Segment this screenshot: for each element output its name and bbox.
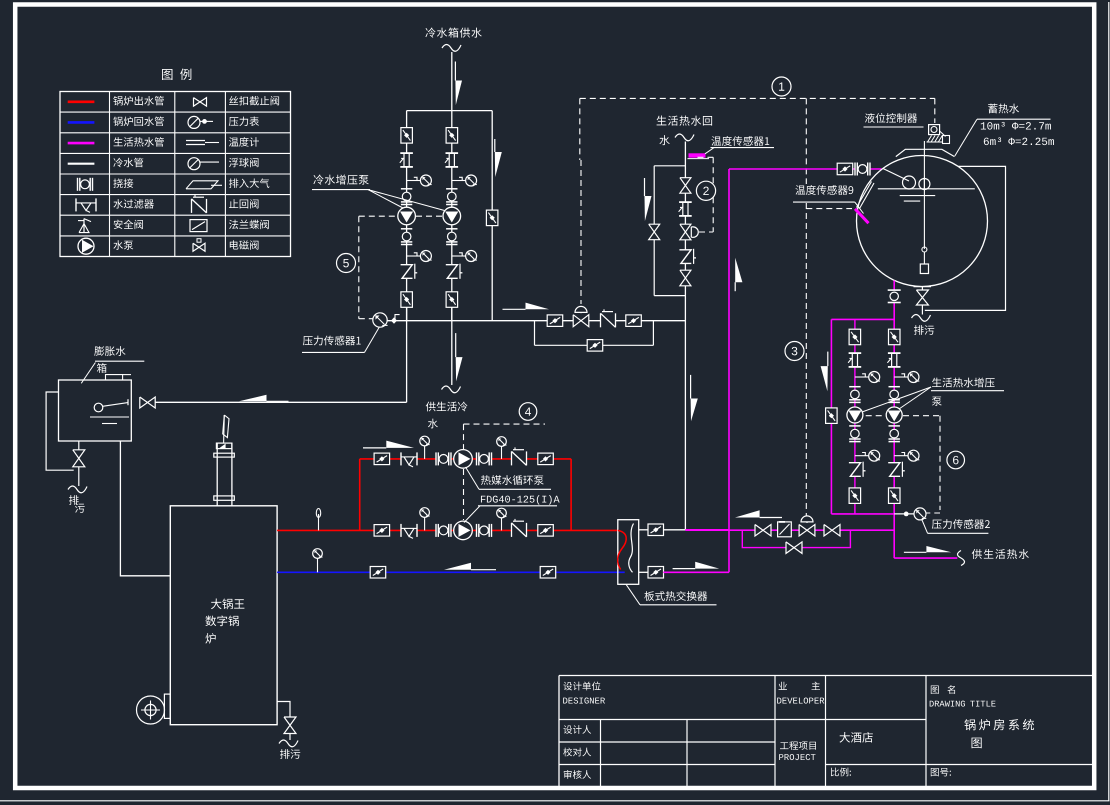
label 排污 blowdown (boiler) — [280, 749, 300, 759]
level controller on tank — [929, 125, 940, 135]
globe valve on return pipe — [680, 178, 691, 194]
flexible joint left branch 6 — [849, 353, 862, 367]
label tank volume 6m3 — [984, 137, 1054, 145]
flanged valve lower red branch left — [374, 525, 390, 537]
flow arrow up on riser — [734, 282, 736, 291]
union branch 1 — [401, 188, 412, 190]
wire header to branch 1 — [406, 111, 408, 129]
pressure gauge branch 2 — [452, 180, 466, 182]
legend row6 water strainer symbol 水过滤器 — [75, 198, 77, 211]
union below pump branch 1 — [401, 228, 412, 230]
circulating pump upper — [454, 450, 473, 469]
tank inlet line (magenta) — [729, 168, 882, 170]
check valve branch 1 — [401, 265, 413, 279]
globe valve on return bypass — [649, 224, 660, 240]
red coil inside heat exchanger — [618, 530, 627, 569]
red drop joining main outlet line — [570, 459, 572, 531]
junction diamond at sensor tap — [391, 317, 397, 323]
flow arrow down on suction drop — [827, 352, 829, 367]
leader from label to pump branch1 — [368, 190, 403, 208]
pump group 6 top manifold (magenta) — [831, 318, 894, 320]
bypass stub right — [652, 321, 654, 346]
globe valve on hot water bypass — [786, 542, 802, 554]
label 供生活热水 supply domestic hot water — [972, 549, 1029, 559]
thermometer gauge upper red branch left — [424, 445, 426, 459]
hot water storage tank 蓄热水罐 — [857, 156, 988, 287]
group number 4 — [519, 403, 537, 421]
wire pump group 5 header — [407, 110, 493, 112]
boiler return pipe (blue) — [277, 571, 625, 573]
motorized control valve on hot water main — [799, 525, 815, 537]
pump group 5 branch1 tail to makeup line — [406, 307, 408, 402]
flexible joint upper red branch left — [436, 452, 451, 465]
label 图号: drawing number — [931, 768, 951, 776]
level switch ball — [903, 176, 916, 189]
label 冷水箱供水 cold water tank supply — [425, 28, 481, 38]
main cold water line — [387, 320, 685, 322]
leader to expansion tank — [81, 363, 95, 384]
label 大酒店 project name — [839, 732, 872, 743]
legend row3 domestic hot water pipe (magenta) 生活热水管 — [68, 142, 95, 145]
makeup water line from cold branch to expansion tank — [155, 401, 406, 403]
legend row6 check valve symbol 止回阀 — [192, 199, 207, 213]
flanged valve branch 1 — [401, 128, 413, 144]
leader to pressure sensor 1 — [365, 327, 380, 353]
legend row5 vent to atmosphere symbol 排入大气 — [186, 181, 218, 189]
dashed control line 1 horizontal — [580, 97, 935, 99]
pump group 5 branch 2 pipe — [451, 129, 453, 321]
label 供生活冷水 supply domestic cold water — [426, 402, 468, 412]
dashed control box 4 — [464, 423, 546, 425]
flow arrow left on makeup line — [267, 400, 289, 402]
cold water booster pump branch 2 — [443, 207, 461, 225]
leader to right pump 6 — [899, 387, 931, 409]
makeup water valve 丝扣截止阀 — [140, 397, 155, 408]
group number 5 — [337, 254, 356, 273]
tank outlet drop to pump group 6 (magenta) — [893, 281, 895, 559]
tank drain valve — [916, 290, 928, 305]
legend row2 pressure gauge symbol 压力表 — [188, 116, 200, 128]
label 排污 blowdown (expansion tank) — [69, 495, 79, 505]
label 比例: scale — [831, 768, 851, 777]
flanged valve right of control valve — [626, 315, 642, 327]
flow arrow right on main cold line — [503, 308, 526, 310]
pressure gauge branch 1 — [407, 180, 421, 182]
pressure sensor 1 gauge — [373, 313, 387, 327]
motorized control valve on cold line — [573, 315, 589, 327]
flow arrow right on HX bottom line — [673, 568, 696, 570]
flexible joint branch 1 — [400, 153, 413, 167]
temperature sensor 9 probe body — [857, 182, 872, 208]
label 业主 DEVELOPER — [779, 682, 787, 690]
strainer lower red branch — [401, 524, 417, 537]
tank inlet dip tube — [883, 169, 909, 182]
legend row4 float ball valve symbol 浮球阀 — [188, 158, 200, 170]
drain valve under expansion tank — [73, 450, 85, 467]
label 压力传感器2 pressure sensor 2 — [932, 519, 990, 529]
check valve on return pipe — [679, 250, 691, 264]
hot water booster pump right — [886, 407, 902, 423]
label 温度传感器9 temperature sensor 9 — [795, 185, 853, 195]
wire header to branch 2 — [451, 111, 453, 129]
union below pump branch 2 — [446, 228, 457, 230]
check valve branch 2 — [446, 265, 458, 279]
HX bottom port magenta to riser — [663, 571, 729, 573]
float ball valve in expansion tank — [94, 403, 103, 412]
pump group 6 outer suction drop (magenta) — [830, 319, 832, 514]
HX bottom port line white — [639, 571, 649, 573]
dashed control box 5 — [359, 215, 398, 217]
HX top port line white — [639, 529, 649, 531]
circulating pump lower — [454, 521, 473, 540]
white coil inside heat exchanger — [629, 524, 634, 573]
union right branch 6 — [889, 386, 900, 388]
label 校对人 — [563, 748, 591, 757]
legend row1 threaded stop valve symbol 丝扣截止阀 — [194, 98, 207, 107]
check valve left branch 6 — [849, 463, 861, 477]
check valve lower red branch — [512, 523, 527, 537]
boiler body 大锅王数字锅炉 — [170, 506, 277, 725]
label 膨胀水箱 — [94, 346, 125, 356]
label 板式热交换器 — [644, 591, 707, 601]
legend row4 cold water pipe (white) 冷水管 — [68, 163, 95, 165]
water level lines in expansion tank — [90, 416, 129, 418]
label 大锅王 数字锅炉 — [211, 599, 244, 610]
union below pump left branch 6 — [849, 425, 860, 427]
gate valve on hot water main — [778, 522, 792, 537]
dashed drop to hot line control valve — [805, 98, 807, 184]
check valve upper red branch — [512, 451, 527, 465]
flexible joint upper red branch right — [477, 452, 492, 465]
leader to upper circulating pump — [466, 467, 480, 489]
union below pump right branch 6 — [889, 425, 900, 427]
legend row7 safety valve symbol 安全阀 — [83, 219, 85, 233]
dashed drop to level controller — [934, 98, 936, 123]
flanged valve left of control valve — [547, 315, 563, 327]
domestic hot water riser (magenta) — [728, 169, 730, 572]
control loop number 3 — [785, 342, 804, 361]
flow arrow down on return bypass — [644, 178, 646, 196]
legend row1 boiler outlet pipe (red) 锅炉出水管 — [68, 101, 95, 104]
bypass stub left — [534, 321, 536, 346]
pressure gauge left branch 6 — [855, 376, 869, 378]
leader to lower circulating pump — [464, 506, 480, 523]
leader to pressure sensor 2 — [922, 520, 928, 533]
pipe break domestic cold outlet — [442, 386, 461, 393]
hot water booster pump left — [847, 407, 863, 423]
pipe from expansion tank to boiler — [120, 441, 170, 576]
tank vent loop to drain — [925, 166, 1006, 310]
flexible joint on tank inlet — [855, 163, 870, 176]
flexible joint right branch 6 — [888, 353, 901, 367]
check valve right branch 6 — [888, 463, 900, 477]
temperature sensor 9 probe tip (magenta) — [855, 209, 869, 223]
union branch 2 — [446, 188, 457, 190]
hot water main from HX to riser (magenta) — [685, 529, 894, 531]
pipe break expansion tank drain — [68, 486, 87, 493]
level controller terminal box — [943, 136, 950, 144]
leader to heat exchanger — [626, 584, 640, 605]
legend row5 flexible joint symbol 挠接 — [78, 178, 93, 191]
temperature sensor 1 probe (magenta) — [689, 154, 705, 157]
legend title 图例 — [162, 69, 191, 81]
flow arrow left on boiler return — [471, 569, 496, 571]
upper circulating pump branch (red) — [360, 458, 571, 460]
tank water level lines — [878, 188, 975, 190]
leader to temperature sensor 9 probe — [855, 202, 864, 213]
legend row8 solenoid valve symbol 电磁阀 — [193, 243, 205, 251]
thermometer on boiler outlet — [318, 514, 320, 530]
flanged valve HX bottom port — [648, 567, 664, 579]
wire cold water supply drop — [451, 52, 453, 111]
globe valve lower on return pipe — [680, 270, 691, 286]
legend table grid — [60, 92, 291, 257]
flanged valve on bypass — [587, 340, 603, 352]
label 设计单位 DESIGNER — [563, 682, 600, 691]
control loop number 1 — [772, 77, 791, 96]
legend row8 water pump symbol 水泵 — [78, 238, 94, 254]
tank top neck — [896, 149, 955, 156]
check valve on cold line — [601, 313, 616, 327]
label 生活热水回水 domestic hot water return — [657, 116, 713, 126]
flanged valve branch 2 — [446, 128, 458, 144]
group number 2 — [696, 181, 715, 200]
level controller hatching — [928, 136, 932, 143]
label 生活热水增压泵 domestic hot water booster pumps — [932, 378, 995, 388]
boiler chimney — [216, 443, 218, 506]
domestic hot water outlet (magenta) — [894, 557, 957, 559]
dashed control box 2 — [698, 156, 714, 158]
expansion tank drain pipe — [78, 441, 80, 486]
leader to left pump 6 — [862, 387, 931, 412]
boiler outlet pipe (red) — [277, 529, 618, 531]
dashed control branch to temperature sensor 9 — [806, 208, 852, 210]
flanged valve bottom branch 1 — [401, 292, 413, 308]
pressure gauge below pump branch 2 — [452, 255, 466, 257]
label 排污 blowdown (tank) — [914, 325, 934, 335]
boiler drain stub — [277, 702, 290, 718]
solenoid valve on return pipe — [680, 224, 691, 240]
flow arrow left on hot water main — [760, 517, 782, 519]
label 热媒水循环泵 circulating pumps — [481, 475, 544, 485]
flow arrow down to domestic cold outlet — [455, 333, 457, 357]
flanged valve on tank inlet — [837, 163, 853, 175]
pressure gauge lower right branch 6 — [894, 455, 908, 457]
expansion tank 膨胀水箱 — [59, 380, 132, 441]
flow arrow down on return pipe lower — [690, 375, 692, 399]
bypass line under control valve — [535, 344, 654, 346]
return bypass left drop — [653, 166, 655, 296]
group number 6 — [947, 451, 965, 469]
label 温度传感器1 temperature sensor 1 — [711, 136, 769, 146]
flanged valve HX top port — [648, 524, 664, 536]
tank drain stub — [914, 286, 932, 288]
label 冷水增压泵 cold water booster pumps — [313, 175, 368, 185]
red riser to pump branch — [359, 459, 361, 531]
leader from label to pump branch2 — [368, 190, 445, 211]
cold water booster pump branch 1 — [398, 207, 416, 225]
boiler drain valve — [284, 717, 296, 734]
label FDG40-125(I)A pump model — [481, 495, 560, 505]
pressure gauge right branch 6 — [894, 376, 908, 378]
label 压力传感器1 pressure sensor 1 — [303, 336, 361, 346]
union left branch 6 — [849, 386, 860, 388]
label tank volume 10m3 — [981, 122, 1051, 130]
dashed control box 6 — [866, 415, 886, 417]
title block grid — [559, 675, 1094, 677]
expansion tank top inlet notch — [106, 375, 123, 380]
flexible joint on return pipe — [679, 202, 692, 216]
flanged valve upper red branch left — [374, 453, 390, 465]
pressure gauge lower left branch 6 — [855, 455, 869, 457]
pressure gauge below pump branch 1 — [407, 255, 421, 257]
drawing title 锅炉房系统图 — [964, 719, 1034, 730]
flanged valve on suction drop — [826, 408, 838, 424]
thermometer gauge lower red branch right — [501, 517, 503, 531]
flanged valve right branch 6 — [889, 329, 901, 345]
pipe break boiler drain — [279, 740, 298, 747]
label 审核人 — [564, 770, 591, 779]
pipe break at return entry — [675, 134, 694, 141]
flexible joint lower red branch right — [477, 524, 492, 537]
expansion tank overflow left loop — [46, 392, 74, 470]
label 工程项目 PROJECT — [780, 741, 816, 750]
chimney damper flag — [223, 415, 226, 443]
level gauge stem in tank — [923, 141, 925, 249]
legend row7 flanged butterfly valve symbol 法兰蝶阀 — [190, 220, 207, 232]
hot water main bypass — [742, 530, 850, 547]
pressure gauge on boiler return — [317, 558, 319, 572]
leader from tank label — [955, 119, 977, 156]
flanged valve upper red branch right — [538, 453, 554, 465]
globe valve 1 on hot water main — [755, 525, 771, 537]
pump group 5 branch2 tail to break — [451, 307, 453, 385]
legend row3 thermometer symbol 温度计 — [186, 140, 205, 142]
level float — [919, 179, 930, 190]
strainer upper red branch — [401, 452, 417, 465]
legend row2 boiler return pipe (blue) 锅炉回水管 — [68, 121, 95, 124]
pipe break tank drain — [912, 315, 931, 322]
label 设计人 — [563, 725, 591, 734]
globe valve 2 on hot water main — [824, 525, 840, 537]
sheet outer thin border right edge — [1108, 2, 1110, 801]
flow arrow down on supply drop — [454, 62, 456, 81]
boiler burner fan — [137, 696, 165, 724]
flanged valve bottom left branch 6 — [849, 488, 861, 504]
plate heat exchanger 板式热交换器 — [618, 520, 639, 585]
flow arrow down on right bypass — [494, 139, 496, 152]
pump group 6 left branch (magenta) — [854, 319, 856, 514]
label 图名 DRAWING TITLE — [931, 686, 939, 694]
pressure sensor 2 gauge — [914, 508, 926, 520]
level gauge weight — [922, 247, 927, 252]
label 蓄热水 stored hot water — [988, 104, 1019, 114]
flexible joint lower red branch left — [436, 524, 451, 537]
return bypass top — [654, 165, 685, 167]
pressure sensor 2 stub — [894, 513, 914, 515]
pump group 6 bottom manifold (magenta) — [831, 513, 894, 515]
HX top port magenta to riser — [685, 529, 729, 531]
return pipe drop group 2 — [684, 142, 686, 530]
flexible joint under tank — [888, 290, 901, 302]
thermometer gauge upper red branch right — [501, 445, 503, 459]
thermometer gauge lower red branch left — [424, 517, 426, 531]
flanged valve on right bypass — [486, 210, 498, 226]
pipe break hot water outlet — [958, 551, 965, 566]
flexible joint branch 2 — [446, 153, 459, 167]
return bypass bottom — [654, 295, 685, 297]
flanged valve lower red branch right — [538, 525, 554, 537]
flanged valve left branch 6 — [849, 329, 861, 345]
flanged valve on return near HX — [540, 567, 556, 579]
pump group 5 branch 1 pipe — [406, 129, 408, 321]
flanged valve bottom branch 2 — [446, 292, 458, 308]
wire right bypass drop from header — [491, 111, 493, 321]
leader to temperature sensor 1 label — [705, 148, 714, 154]
flanged valve on return near boiler — [370, 567, 386, 579]
sheet outer thin border bottom edge — [0, 800, 1110, 802]
vent nipple at sensor tap — [395, 315, 400, 320]
pipe break at cold water supply entry — [442, 45, 461, 52]
flanged valve bottom right branch 6 — [889, 488, 901, 504]
dashed drop to cold line control valve — [579, 98, 581, 160]
flow arrow right on hot water outlet — [904, 551, 927, 553]
label 液位控制器 level controller — [865, 113, 917, 123]
flow arrow right on upper red branch — [363, 447, 386, 449]
